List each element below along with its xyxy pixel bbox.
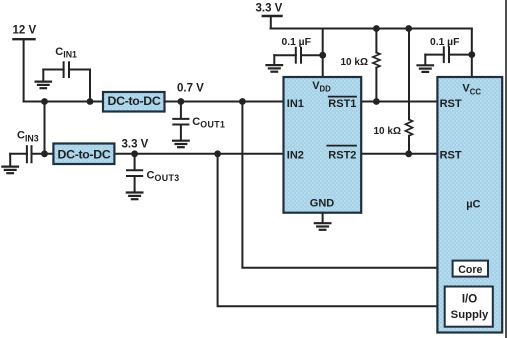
wire io supply drop xyxy=(218,154,445,306)
node junction VCC bypass xyxy=(468,51,475,58)
svg-text:GND: GND xyxy=(310,197,335,209)
capacitor COUT3 xyxy=(127,154,142,192)
3.3 V supply rail bar xyxy=(263,15,282,17)
ground for supervisor GND xyxy=(315,213,331,230)
node junction io supply tap xyxy=(214,150,221,157)
wire branch down to DC2 input xyxy=(44,102,46,154)
ground for CIN1 xyxy=(36,82,51,89)
wire 12V feed to DC1 xyxy=(24,101,103,103)
pin label RST2 xyxy=(327,146,356,162)
svg-text:0.1 µF: 0.1 µF xyxy=(282,37,311,48)
svg-text:DC-to-DC: DC-to-DC xyxy=(108,94,161,108)
wire 12V drop xyxy=(23,39,25,101)
node junction rail R1 xyxy=(373,25,380,32)
svg-text:RST2: RST2 xyxy=(328,150,356,162)
svg-text:I/O: I/O xyxy=(462,293,477,305)
node junction COUT3 xyxy=(131,150,138,157)
node junction CIN1 tap xyxy=(87,98,94,105)
wire VDD drop xyxy=(322,29,324,78)
wire RST2 to uC RST xyxy=(361,153,437,155)
node junction core supply tap xyxy=(239,98,246,105)
node junction VDD bypass xyxy=(319,52,326,59)
wire 0.7V rail xyxy=(165,101,284,103)
resistor R2 10k xyxy=(406,29,413,154)
uC microcontroller body xyxy=(437,77,502,333)
svg-text:COUT1: COUT1 xyxy=(192,116,225,130)
I/O Supply block xyxy=(445,287,493,327)
capacitor CIN1 xyxy=(43,62,90,101)
node junction COUT1 xyxy=(178,98,185,105)
resistor R1 10k xyxy=(373,29,380,102)
ground for COUT3 xyxy=(127,193,143,200)
ground for COUT1 xyxy=(173,141,189,148)
svg-text:RST: RST xyxy=(440,150,462,162)
svg-text:0.1 µF: 0.1 µF xyxy=(430,37,459,48)
node junction R1 RST1 xyxy=(373,98,380,105)
capacitor COUT1 xyxy=(173,102,188,140)
wire top rail xyxy=(271,28,472,30)
wire 3.3V rail from DC2 xyxy=(115,153,284,155)
node junction CIN3 to DC2 xyxy=(41,150,48,157)
capacitor bypass 0.1uF left xyxy=(274,48,322,65)
wire rail corner down to VCC xyxy=(471,29,473,78)
capacitor bypass 0.1uF right xyxy=(425,47,472,65)
DC-to-DC converter 1 xyxy=(103,92,165,112)
node junction rail R2 xyxy=(405,25,412,32)
svg-text:IN1: IN1 xyxy=(287,98,304,110)
wire core supply drop xyxy=(242,102,452,268)
svg-text:10 kΩ: 10 kΩ xyxy=(374,126,401,137)
node junction R2 RST2 xyxy=(405,150,412,157)
ground for CIN3 xyxy=(2,167,18,174)
svg-text:COUT3: COUT3 xyxy=(147,169,180,183)
svg-text:0.7 V: 0.7 V xyxy=(177,83,204,95)
svg-text:Supply: Supply xyxy=(451,309,489,321)
12 V supply rail bar xyxy=(14,38,35,40)
svg-text:µC: µC xyxy=(466,198,480,210)
svg-text:DC-to-DC: DC-to-DC xyxy=(58,147,111,161)
DC-to-DC converter 2 xyxy=(53,144,114,165)
node junction 12V branch xyxy=(41,98,48,105)
svg-text:3.3 V: 3.3 V xyxy=(122,139,149,151)
pin label RST1 xyxy=(328,97,356,110)
svg-text:RST: RST xyxy=(440,98,462,110)
ground for right bypass xyxy=(418,65,434,72)
svg-text:CIN1: CIN1 xyxy=(55,46,77,60)
svg-text:IN2: IN2 xyxy=(287,150,304,162)
wire 3.3V top drop xyxy=(270,16,272,29)
wire RST1 to uC RST xyxy=(361,101,437,103)
svg-text:10 kΩ: 10 kΩ xyxy=(341,57,368,68)
svg-text:CIN3: CIN3 xyxy=(17,130,39,144)
image right border line xyxy=(505,0,507,338)
svg-text:12 V: 12 V xyxy=(13,25,37,37)
capacitor CIN3 xyxy=(10,146,53,166)
ground for left bypass xyxy=(267,65,283,72)
svg-text:3.3 V: 3.3 V xyxy=(256,3,283,15)
svg-text:RST1: RST1 xyxy=(328,98,356,110)
op-amp U1 supervisor IC body xyxy=(284,77,362,213)
svg-text:Core: Core xyxy=(458,264,482,276)
Core block xyxy=(453,261,488,277)
